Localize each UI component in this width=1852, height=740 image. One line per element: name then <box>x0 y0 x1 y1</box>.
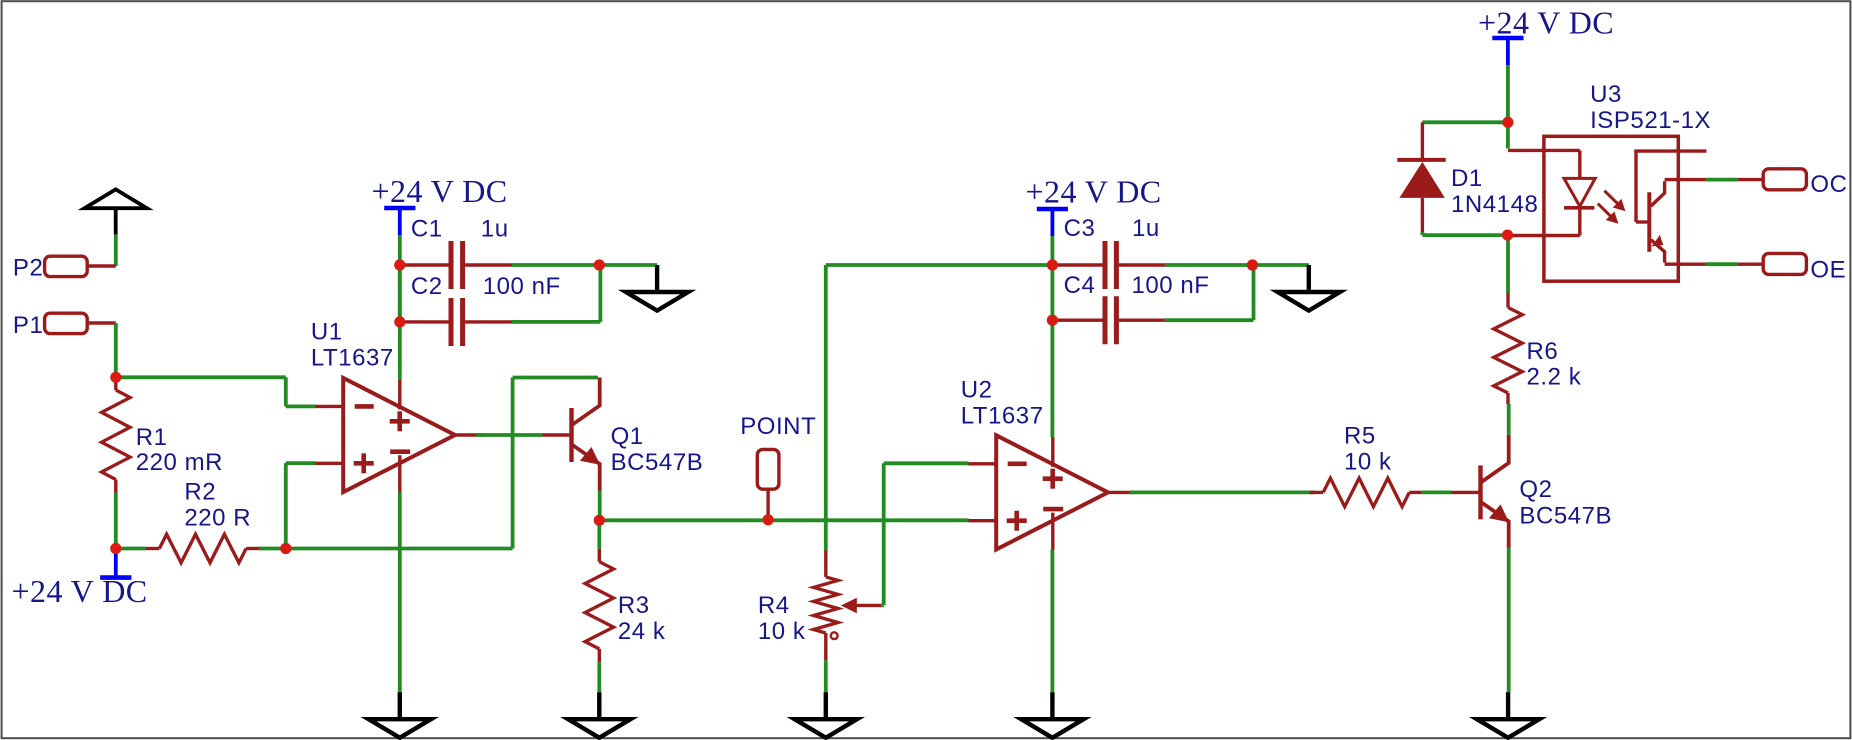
wire R4 to ground <box>824 660 828 692</box>
node F junction <box>1502 230 1513 241</box>
optocoupler U3 box <box>1544 136 1678 281</box>
U3 LED <box>1564 178 1595 206</box>
power +24 V DC (U1 rail) <box>384 206 415 211</box>
svg-text:LT1637: LT1637 <box>311 344 394 371</box>
svg-text:U2: U2 <box>961 376 993 403</box>
wire Q2 collector to R6 <box>1507 404 1511 435</box>
ground (R3) <box>597 692 601 719</box>
wire node E to ground <box>1252 263 1308 267</box>
wire node A to U1 inverting input <box>116 375 286 379</box>
capacitor C1 <box>400 263 449 266</box>
resistor R2 <box>159 534 246 563</box>
op-amp U1 <box>343 378 455 492</box>
node C2-left junction <box>394 316 405 327</box>
svg-text:R5: R5 <box>1344 423 1376 450</box>
connector P1 <box>45 313 88 333</box>
transistor Q2 <box>1478 465 1482 519</box>
node C1-left junction <box>394 259 405 270</box>
potentiometer R4 <box>814 577 839 633</box>
svg-text:C1: C1 <box>411 216 443 243</box>
resistor R5 <box>1323 478 1409 507</box>
wire R6 to node F <box>1506 235 1510 292</box>
U3 pin 2 (cathode) <box>1508 234 1580 237</box>
U3 phototransistor emitter <box>1651 240 1665 263</box>
wire U2 output to R5 <box>1129 490 1314 494</box>
power +24 V DC (U2 rail) <box>1037 207 1068 212</box>
svg-text:ISP521-1X: ISP521-1X <box>1590 107 1711 134</box>
capacitor C4 <box>1052 319 1102 322</box>
power +24 V DC (bottom left, inverted) <box>100 575 131 580</box>
ground (U1) <box>398 692 402 719</box>
wire node G to D1 <box>1422 120 1508 124</box>
svg-text:C3: C3 <box>1064 215 1096 242</box>
wire C2 right up to C1 node <box>512 320 600 324</box>
svg-text:220 R: 220 R <box>184 504 251 531</box>
wire U1 V+ rail <box>398 265 402 380</box>
svg-text:P2: P2 <box>13 255 43 282</box>
wire R1 to node B <box>114 493 118 549</box>
svg-text:1u: 1u <box>1132 215 1160 242</box>
wire U1 V- to ground <box>398 492 402 692</box>
op-amp U2 <box>996 435 1108 549</box>
node A junction <box>110 372 121 383</box>
svg-text:U1: U1 <box>311 319 343 346</box>
node C3-left junction <box>1047 259 1058 270</box>
wire R5 to Q2 base <box>1421 490 1451 494</box>
svg-text:D1: D1 <box>1451 165 1483 192</box>
wire node D to R3 <box>597 520 601 548</box>
wire C-node to ground <box>599 263 657 267</box>
svg-text:+24 V DC: +24 V DC <box>12 573 148 609</box>
node B junction <box>110 543 121 554</box>
resistor R3 <box>585 562 614 649</box>
wire node D to U2 non-inverting input <box>599 518 968 522</box>
wire U1 output to Q1 base <box>476 433 543 437</box>
svg-text:1N4148: 1N4148 <box>1451 191 1538 218</box>
node POINT junction <box>763 514 774 525</box>
wire node G to U3 pin1 <box>1506 122 1510 148</box>
node C junction <box>280 543 291 554</box>
svg-text:1u: 1u <box>481 216 509 243</box>
wire C1/C2 node vertical <box>398 265 402 322</box>
svg-text:10 k: 10 k <box>758 618 806 645</box>
resistor R6 <box>1494 308 1523 394</box>
wire feedback vertical <box>511 378 515 549</box>
connector OE <box>1763 253 1806 274</box>
connector P2 <box>45 256 88 276</box>
wire C3 node to R4 <box>824 265 828 551</box>
svg-text:+24 V DC: +24 V DC <box>1478 5 1614 41</box>
svg-text:24 k: 24 k <box>618 618 666 645</box>
svg-text:R4: R4 <box>758 592 790 619</box>
node E junction <box>1247 259 1258 270</box>
svg-text:R2: R2 <box>184 479 216 506</box>
svg-text:10 k: 10 k <box>1344 449 1392 476</box>
svg-text:LT1637: LT1637 <box>961 402 1044 429</box>
wire R2 to node C <box>259 547 286 551</box>
ground (R4) <box>824 692 828 719</box>
U3 base bracket <box>1634 151 1637 222</box>
svg-text:OC: OC <box>1810 171 1847 198</box>
node G junction <box>1502 117 1513 128</box>
wire Q2 emitter to ground <box>1507 548 1511 692</box>
U3 phototransistor collector <box>1651 181 1665 206</box>
wire node B to R2 <box>116 547 145 551</box>
test point POINT <box>757 449 779 489</box>
wire node C to U1 non-inverting input <box>284 463 288 548</box>
U3 pin 1 (anode) <box>1508 149 1580 152</box>
wire Q1 emitter to node D <box>598 491 602 521</box>
svg-text:100 nF: 100 nF <box>1132 272 1210 299</box>
svg-text:C2: C2 <box>411 273 443 300</box>
svg-text:Q2: Q2 <box>1519 476 1552 503</box>
svg-text:R6: R6 <box>1527 338 1559 365</box>
wire power to node G <box>1506 65 1510 122</box>
U3 light arrows <box>1604 191 1617 204</box>
diode D1 <box>1421 122 1424 160</box>
wire C4 right up to node E <box>1165 318 1254 322</box>
svg-text:POINT: POINT <box>740 413 816 440</box>
wire D1 to node F <box>1421 232 1425 235</box>
wire P2 to arrow <box>114 235 118 266</box>
wire R3 to ground <box>597 662 601 692</box>
wire node C to feedback corner <box>286 547 513 551</box>
wire U2 V+ rail <box>1051 320 1055 437</box>
U3 pin 5 wire to OC <box>1665 178 1706 181</box>
svg-text:R1: R1 <box>136 424 168 451</box>
svg-text:100 nF: 100 nF <box>483 273 561 300</box>
svg-text:220 mR: 220 mR <box>136 449 223 476</box>
node C4-left junction <box>1047 315 1058 326</box>
antenna arrow symbol <box>85 189 147 208</box>
wire P1 to node A <box>114 323 118 377</box>
svg-text:Q1: Q1 <box>611 423 644 450</box>
wire power to C3 node <box>1051 236 1055 265</box>
svg-text:+24 V DC: +24 V DC <box>1026 174 1162 210</box>
svg-text:R3: R3 <box>618 592 650 619</box>
svg-text:+24 V DC: +24 V DC <box>372 173 508 209</box>
node D junction <box>594 515 605 526</box>
wire R4-top to C3 node <box>826 263 1053 267</box>
ground (U2) <box>1050 692 1054 719</box>
svg-text:P1: P1 <box>13 312 43 339</box>
wire C1 to ground node <box>512 263 599 267</box>
wire C3 to node E <box>1165 263 1253 267</box>
connector OC <box>1763 169 1806 190</box>
ground (Q2) <box>1506 692 1510 719</box>
node C1-right junction <box>594 259 605 270</box>
resistor R1 <box>102 390 131 480</box>
wire power to C1 node <box>398 235 402 265</box>
svg-text:BC547B: BC547B <box>1519 503 1612 530</box>
wire C3/C4 node vertical <box>1051 265 1055 320</box>
svg-text:OE: OE <box>1810 256 1846 283</box>
svg-text:2.2 k: 2.2 k <box>1527 364 1582 391</box>
capacitor C2 <box>400 320 449 323</box>
U3 phototransistor base bar <box>1647 192 1651 251</box>
capacitor C3 <box>1052 263 1102 266</box>
U3 pin 4 wire to OE <box>1665 263 1706 266</box>
svg-text:BC547B: BC547B <box>611 449 704 476</box>
transistor Q1 <box>569 408 573 462</box>
wire R4 wiper to U2 inverting input <box>881 604 884 608</box>
wire U2 V- to ground <box>1051 550 1055 693</box>
svg-text:C4: C4 <box>1064 272 1096 299</box>
ground (C3/C4 block) <box>1307 265 1311 292</box>
svg-text:U3: U3 <box>1590 81 1622 108</box>
power +24 V DC (top right) <box>1492 36 1523 41</box>
ground (C1/C2 block) <box>655 265 659 292</box>
